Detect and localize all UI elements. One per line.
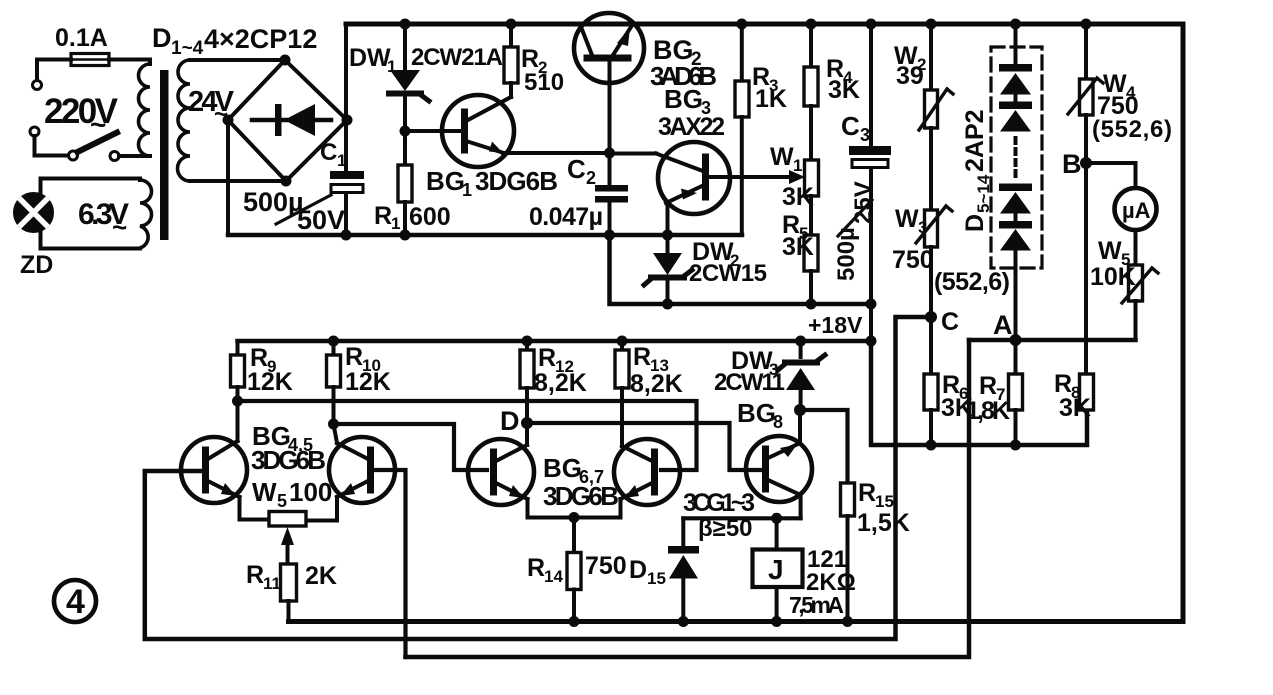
bridge rectifier D1-4 diamond bbox=[228, 60, 347, 181]
svg-text:W: W bbox=[252, 477, 277, 507]
wire divider bottom rail y445 bbox=[871, 341, 1087, 445]
svg-text:~: ~ bbox=[90, 109, 106, 140]
label +18V bbox=[808, 312, 863, 338]
label C bbox=[941, 308, 959, 336]
resistor R15 1.5K bbox=[841, 483, 855, 622]
wire right vertex to C1 bbox=[344, 120, 348, 172]
lamp ZD bbox=[15, 194, 53, 232]
svg-text:C: C bbox=[841, 111, 860, 141]
wire B down through crossing to R8 bbox=[1084, 163, 1088, 374]
node C bbox=[925, 311, 937, 323]
label R11 2K bbox=[246, 561, 337, 593]
svg-text:600: 600 bbox=[409, 203, 451, 231]
svg-text:(552,6): (552,6) bbox=[1092, 116, 1172, 143]
node top rail C3 bbox=[866, 19, 877, 30]
svg-text:2CW15: 2CW15 bbox=[689, 260, 767, 287]
node R7 bottom bbox=[1010, 440, 1021, 451]
wire W2 to W3 bbox=[929, 128, 933, 210]
label R13 8.2K bbox=[630, 343, 683, 398]
node bridge bottom bbox=[281, 176, 292, 187]
svg-text:R: R bbox=[527, 554, 545, 582]
label 6.3V bbox=[78, 198, 129, 242]
svg-text:C: C bbox=[567, 154, 586, 184]
label DW1 bbox=[349, 44, 396, 76]
resistor R6 3K bbox=[924, 317, 938, 445]
svg-text:R: R bbox=[858, 479, 876, 507]
svg-text:750: 750 bbox=[585, 552, 627, 580]
fuse 0.1A bbox=[71, 54, 109, 66]
svg-text:2K: 2K bbox=[305, 562, 337, 590]
wire node C feedback loop to BG4 base bbox=[145, 317, 931, 639]
node BG2 collector junction bbox=[604, 148, 615, 159]
svg-text:2: 2 bbox=[586, 168, 596, 188]
potentiometer W5 100 bbox=[269, 512, 306, 527]
svg-text:1: 1 bbox=[391, 214, 400, 233]
node R6 bottom bbox=[926, 440, 937, 451]
wire BG5 base to A drop bbox=[374, 470, 406, 657]
slash of C1 value bbox=[276, 195, 331, 224]
svg-text:C: C bbox=[320, 139, 337, 166]
node rail1 R13 bbox=[617, 336, 628, 347]
label D1~4 4x2CP12 bbox=[152, 23, 317, 59]
zener DW1 2CW21A bbox=[389, 24, 429, 131]
transistor BG1 3DG6B bbox=[405, 95, 514, 167]
node BG1 base junction bbox=[400, 126, 411, 137]
diode D15 bbox=[668, 518, 699, 621]
transformer core bbox=[160, 70, 169, 240]
svg-text:BG: BG bbox=[664, 84, 703, 114]
wire W3 to node C bbox=[929, 247, 933, 317]
transistor BG8 bbox=[746, 410, 812, 518]
transistor BG6 bbox=[468, 423, 534, 518]
dotted continuation of diode string bbox=[1014, 138, 1018, 182]
svg-text:R: R bbox=[979, 372, 997, 400]
capacitor C1 500u/50V bbox=[330, 171, 364, 193]
resistor R7 1.8K bbox=[1009, 340, 1023, 445]
resistor R9 12K bbox=[231, 341, 245, 401]
terminal bottom-left bbox=[30, 127, 39, 136]
node J bottom bbox=[771, 616, 782, 627]
resistor R13 8.2K bbox=[615, 341, 629, 446]
switch S pivot bbox=[69, 151, 78, 160]
svg-text:8: 8 bbox=[773, 412, 783, 432]
node top rail R3 bbox=[736, 19, 747, 30]
svg-text:D: D bbox=[961, 214, 989, 232]
wire BG3 base to W1 wiper arrow bbox=[709, 170, 805, 184]
node R15 bottom bbox=[842, 616, 853, 627]
svg-text:1~4: 1~4 bbox=[171, 38, 204, 59]
node top rail R2 bbox=[506, 19, 517, 30]
capacitor C2 0.047u bbox=[595, 153, 628, 235]
svg-text:3K: 3K bbox=[782, 233, 814, 261]
zener DW2 2CW15 bbox=[644, 235, 692, 304]
svg-text:µA: µA bbox=[1122, 198, 1151, 223]
winding 6.3V bbox=[140, 180, 152, 248]
svg-text:3DG6B: 3DG6B bbox=[475, 166, 558, 196]
node top rail R4 bbox=[806, 19, 817, 30]
label R12 8.2K bbox=[534, 344, 587, 397]
wire switch to primary winding bottom bbox=[119, 154, 150, 158]
label R5 3K bbox=[782, 211, 814, 261]
label R3 1K bbox=[752, 63, 787, 113]
slash of C3 value bbox=[838, 200, 872, 236]
wire fuse right to primary winding top bbox=[109, 60, 150, 65]
svg-text:D: D bbox=[500, 406, 520, 436]
svg-text:1: 1 bbox=[337, 151, 346, 170]
svg-text:1,5K: 1,5K bbox=[857, 509, 910, 537]
svg-text:14: 14 bbox=[544, 567, 563, 586]
svg-text:BG: BG bbox=[426, 166, 465, 196]
rheostat W4 750 bbox=[1068, 24, 1103, 115]
label 220V bbox=[44, 92, 119, 140]
resistor R12 8.2K bbox=[520, 341, 534, 423]
resistor R5 3K bbox=[804, 235, 818, 304]
transistor BG2 3AD6B bbox=[574, 13, 644, 153]
node R14 bottom bbox=[569, 616, 580, 627]
svg-text:2CW11: 2CW11 bbox=[714, 369, 785, 396]
label DW2 2CW15 bbox=[689, 238, 767, 287]
node bridge top bbox=[280, 55, 291, 66]
svg-text:D: D bbox=[152, 23, 172, 53]
node A bbox=[1010, 334, 1022, 346]
mark circled 4 bbox=[54, 580, 96, 622]
transistor BG3 3AX22 bbox=[610, 142, 731, 235]
diode D14 bbox=[999, 213, 1032, 251]
label uA bbox=[1122, 198, 1151, 223]
label W4 750 (552.6) bbox=[1092, 70, 1172, 143]
transistor BG4 bbox=[181, 401, 269, 520]
svg-text:3AX22: 3AX22 bbox=[658, 113, 725, 141]
svg-text:C: C bbox=[941, 308, 959, 336]
svg-text:W: W bbox=[895, 205, 919, 233]
svg-text:2CW21A: 2CW21A bbox=[411, 44, 503, 71]
svg-text:15: 15 bbox=[647, 569, 666, 588]
svg-text:3: 3 bbox=[860, 125, 870, 145]
wire A drop to lower section bbox=[406, 340, 970, 657]
svg-text:12K: 12K bbox=[345, 368, 391, 396]
node bridge left bbox=[223, 115, 234, 126]
wire rail to diode D5 bbox=[1014, 24, 1018, 64]
label 500u/25V rotated bbox=[833, 181, 877, 281]
node rail1 R10 bbox=[328, 336, 339, 347]
svg-text:1,8K: 1,8K bbox=[966, 397, 1010, 425]
label D bbox=[500, 406, 520, 436]
switch arm bbox=[78, 133, 118, 153]
label R15 1.5K bbox=[857, 479, 910, 537]
label 2CW21A bbox=[411, 44, 503, 71]
node bridge right bbox=[342, 115, 353, 126]
wire bridge left vertex down to minus rail bbox=[226, 120, 230, 235]
label 24V bbox=[188, 86, 235, 128]
svg-text:W: W bbox=[770, 143, 794, 171]
resistor R3 1K bbox=[735, 24, 749, 235]
svg-text:1: 1 bbox=[462, 180, 472, 200]
node top rail W4 bbox=[1081, 19, 1092, 30]
wire W4 to node B bbox=[1084, 115, 1088, 163]
svg-text:8,2K: 8,2K bbox=[630, 370, 683, 398]
label 3CG1~3 bbox=[683, 489, 755, 517]
wire D line to BG8 base bbox=[527, 423, 760, 470]
node C3 bottom at +18 rail bbox=[866, 299, 877, 310]
svg-text:3K: 3K bbox=[828, 76, 860, 104]
svg-text:3: 3 bbox=[918, 218, 927, 237]
resistor R2 510 bbox=[504, 24, 518, 97]
terminal top-left bbox=[33, 81, 42, 90]
label BG6,7 3DG6B bbox=[543, 453, 619, 511]
label BG8 bbox=[737, 398, 783, 432]
bridge inner diode bbox=[252, 104, 331, 136]
wire winding bottom to bridge bottom bbox=[190, 179, 286, 183]
wire C2 junction down to +18 rail bbox=[610, 235, 872, 304]
wire BG8 emitter line y518 bbox=[683, 516, 800, 520]
label R14 750 bbox=[527, 552, 627, 586]
label R9 12K bbox=[247, 344, 293, 396]
switch contact bbox=[110, 152, 119, 161]
transistor BG7 bbox=[614, 439, 680, 518]
label D5~14 2AP2 rotated bbox=[961, 109, 993, 232]
label W3 750 bbox=[892, 205, 934, 274]
label J bbox=[768, 554, 784, 585]
svg-text:R: R bbox=[374, 202, 392, 230]
svg-text:(552,6): (552,6) bbox=[934, 268, 1010, 296]
svg-text:4: 4 bbox=[66, 583, 85, 621]
svg-text:2AP2: 2AP2 bbox=[961, 109, 989, 172]
label W2 39 bbox=[894, 42, 926, 90]
wire bridge right vertex riser bbox=[344, 24, 348, 120]
node rail1 feed junction bbox=[866, 336, 877, 347]
node D bbox=[521, 417, 533, 429]
svg-text:BG: BG bbox=[543, 453, 582, 483]
node R5 bottom bbox=[806, 299, 817, 310]
label 4 bbox=[66, 583, 85, 621]
svg-text:~: ~ bbox=[112, 212, 127, 242]
label DW3 2CW11 bbox=[714, 347, 785, 396]
node top rail W2 bbox=[926, 19, 937, 30]
node BG8 collector junction bbox=[794, 404, 806, 416]
label D15 bbox=[629, 556, 666, 588]
label R6 3K bbox=[941, 371, 973, 422]
wire BG6 BG7 emitters join bbox=[528, 516, 621, 520]
wire BG1 emitter line bbox=[503, 151, 610, 155]
svg-text:1: 1 bbox=[387, 57, 396, 76]
wire rail1 +18 lower rail bbox=[238, 339, 872, 344]
svg-text:R: R bbox=[633, 343, 651, 371]
lamp winding 6.3V top wire bbox=[41, 179, 141, 193]
node J top bbox=[771, 513, 782, 524]
label C3 bbox=[841, 111, 870, 145]
svg-text:3CG1~3: 3CG1~3 bbox=[683, 489, 755, 517]
resistor R11 2K bbox=[281, 564, 297, 622]
relay J bbox=[753, 518, 803, 621]
svg-text:3K: 3K bbox=[1059, 394, 1091, 422]
wire B to meter branch bbox=[1086, 163, 1136, 188]
wire DW1 to R1 bbox=[403, 131, 407, 165]
node rail1 DW3 bbox=[795, 336, 806, 347]
svg-text:D: D bbox=[629, 556, 647, 584]
lamp winding bottom wire bbox=[41, 232, 141, 249]
wire y401 line to BG7 base bbox=[238, 401, 697, 470]
svg-text:0.047µ: 0.047µ bbox=[529, 203, 603, 231]
node top rail diode string bbox=[1010, 19, 1021, 30]
wire A line to W5 bottom bbox=[969, 338, 1136, 343]
label R2 510 bbox=[521, 45, 564, 96]
wire R10 node to BG6 base bbox=[334, 424, 488, 470]
node BG3 emitter at rail bbox=[662, 230, 673, 241]
svg-text:750: 750 bbox=[892, 246, 934, 274]
svg-text:A: A bbox=[993, 310, 1013, 340]
svg-text:R: R bbox=[538, 344, 556, 372]
svg-text:R: R bbox=[345, 343, 363, 371]
secondary winding 24V bbox=[178, 60, 191, 181]
label R4 3K bbox=[826, 55, 860, 104]
svg-text:3DG6B: 3DG6B bbox=[251, 445, 326, 475]
svg-text:7,5mA: 7,5mA bbox=[789, 592, 844, 618]
resistor R14 750 bbox=[567, 518, 581, 622]
resistor R10 12K bbox=[327, 341, 341, 424]
label R8 3K bbox=[1054, 370, 1091, 422]
svg-text:3DG6B: 3DG6B bbox=[543, 481, 619, 511]
wire minus rail y235 bbox=[228, 233, 742, 238]
wire diode string to node A bbox=[1014, 250, 1018, 340]
capacitor C3 500u/25V bbox=[849, 24, 891, 341]
potentiometer W1 3K bbox=[805, 160, 819, 235]
wire terminal to switch pivot bbox=[35, 136, 69, 156]
svg-text:W: W bbox=[1098, 237, 1122, 265]
svg-text:BG: BG bbox=[737, 398, 776, 428]
svg-text:B: B bbox=[1062, 149, 1082, 179]
wire C1 bottom bbox=[344, 193, 348, 235]
svg-text:11: 11 bbox=[263, 574, 281, 593]
label C2 bbox=[567, 154, 596, 188]
svg-text:5: 5 bbox=[277, 491, 287, 511]
rheostat W3 750 bbox=[916, 206, 952, 247]
label W5 10K bbox=[1090, 237, 1136, 291]
svg-text:R: R bbox=[246, 561, 264, 589]
svg-text:0.1A: 0.1A bbox=[55, 24, 108, 52]
wire emitter ground rail y621 bbox=[289, 619, 1184, 624]
rheostat W2 39 bbox=[919, 24, 953, 130]
meter uA bbox=[1115, 188, 1157, 230]
label R1 600 bbox=[374, 202, 451, 233]
node B bbox=[1080, 157, 1092, 169]
rheostat W5 10K bbox=[1122, 265, 1158, 303]
wire fuse left to top terminal bbox=[37, 60, 71, 81]
node top rail DW1 bbox=[400, 19, 411, 30]
dashed box D5~14 bbox=[991, 47, 1042, 268]
svg-text:10K: 10K bbox=[1090, 263, 1136, 291]
transformer T primary winding 220V bbox=[139, 64, 150, 156]
label BG3 3AX22 bbox=[658, 84, 725, 141]
junction C1 bottom bbox=[341, 230, 352, 241]
node rail1 R12 bbox=[522, 336, 533, 347]
label 500u/50V bbox=[243, 187, 345, 235]
svg-text:8,2K: 8,2K bbox=[534, 369, 587, 397]
svg-text:+18V: +18V bbox=[808, 312, 863, 338]
svg-text:100: 100 bbox=[289, 477, 332, 507]
label A bbox=[993, 310, 1013, 340]
node DW2 bottom bbox=[662, 299, 673, 310]
transistor BG5 bbox=[306, 424, 395, 521]
wire R15 link from BG8 collector node bbox=[800, 410, 848, 483]
svg-text:J: J bbox=[768, 554, 784, 585]
label B bbox=[1062, 149, 1082, 179]
resistor R4 3K bbox=[804, 24, 818, 160]
label (552.6) under diode box bbox=[934, 268, 1010, 296]
wiper arrow W5 to R11 bbox=[281, 527, 294, 564]
resistor R1 600 bbox=[398, 165, 412, 235]
svg-text:3K: 3K bbox=[782, 183, 814, 211]
label BG2 3AD6B bbox=[650, 35, 717, 91]
svg-text:1: 1 bbox=[793, 156, 802, 175]
label BG4,5 3DG6B W5 100 bbox=[251, 421, 332, 511]
svg-text:39: 39 bbox=[896, 62, 924, 90]
resistor R8 3K bbox=[1080, 374, 1094, 410]
wire right border bbox=[1181, 24, 1186, 622]
node D15 bottom bbox=[678, 616, 689, 627]
label BG1 3DG6B bbox=[426, 166, 558, 200]
node emitters to R14 bbox=[569, 512, 580, 523]
label R10 12K bbox=[345, 343, 391, 396]
node R1 bottom bbox=[400, 230, 411, 241]
diode D6 bbox=[999, 94, 1032, 132]
svg-text:4×2CP12: 4×2CP12 bbox=[204, 24, 317, 54]
diode D5 bbox=[999, 64, 1032, 95]
wire W5 bottom to A line bbox=[1134, 301, 1138, 340]
svg-text:ZD: ZD bbox=[20, 251, 53, 279]
diode D13 bbox=[999, 184, 1032, 214]
label 0.1A bbox=[55, 24, 108, 52]
wire winding top to bridge top bbox=[190, 58, 285, 62]
label 0.047u bbox=[529, 203, 603, 231]
label beta>=50 bbox=[698, 515, 753, 542]
zener DW3 2CW11 bbox=[778, 341, 825, 410]
svg-text:DW: DW bbox=[349, 44, 391, 72]
svg-text:220V: 220V bbox=[44, 92, 119, 131]
svg-text:1K: 1K bbox=[755, 85, 787, 113]
svg-text:12K: 12K bbox=[247, 368, 293, 396]
label ZD bbox=[20, 251, 53, 279]
label C1 bbox=[320, 139, 346, 170]
node R10 bottom BG5 collector bbox=[328, 419, 339, 430]
wire meter to W5 bbox=[1134, 230, 1138, 265]
wire top rail bbox=[346, 22, 1183, 27]
svg-text:5~14: 5~14 bbox=[974, 174, 993, 213]
label R7 1.8K bbox=[966, 372, 1010, 425]
node R9 bottom bbox=[232, 396, 243, 407]
node C2 bottom bbox=[604, 230, 615, 241]
svg-text:510: 510 bbox=[524, 69, 564, 96]
label W1 3K bbox=[770, 143, 814, 211]
label 121 2KOhm 7.5mA bbox=[789, 546, 856, 618]
